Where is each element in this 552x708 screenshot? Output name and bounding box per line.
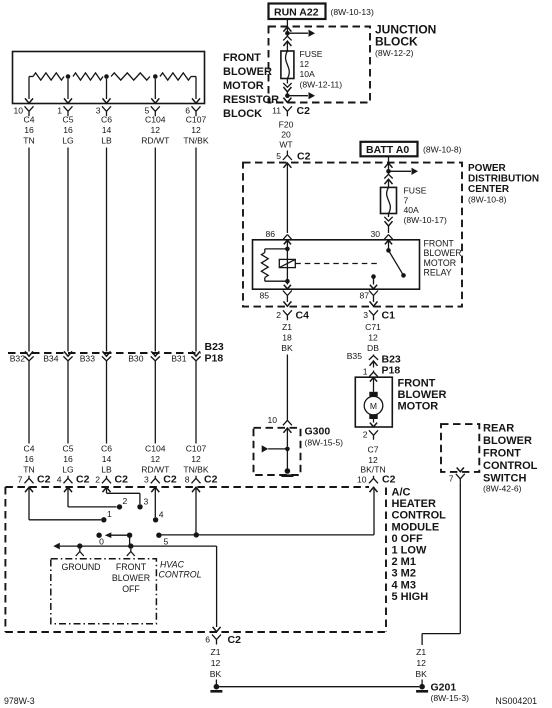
svg-text:BK: BK	[415, 669, 427, 679]
svg-text:86: 86	[265, 229, 275, 239]
svg-text:M: M	[370, 401, 377, 411]
svg-text:4: 4	[57, 475, 62, 485]
wire pin2 to switch contact 3	[107, 487, 140, 504]
relay pin 87	[359, 291, 378, 301]
arrow at G300 top edge	[283, 428, 291, 447]
svg-text:B23: B23	[205, 341, 224, 353]
svg-text:MOTOR: MOTOR	[223, 80, 264, 92]
svg-text:Z1: Z1	[210, 647, 220, 657]
node G300 junction dot	[285, 447, 290, 452]
svg-text:12: 12	[300, 59, 310, 69]
sheet code NS004201	[495, 696, 537, 706]
svg-text:RESISTOR: RESISTOR	[223, 94, 279, 106]
svg-text:FRONT: FRONT	[116, 562, 147, 572]
svg-text:(8W-10-8): (8W-10-8)	[468, 195, 507, 205]
relay pin 85	[259, 291, 291, 301]
svg-text:C2: C2	[297, 151, 311, 163]
svg-text:LB: LB	[101, 465, 112, 475]
relay coil wire from pin 86	[286, 240, 288, 281]
svg-text:C104: C104	[145, 115, 166, 125]
svg-text:7: 7	[449, 474, 454, 484]
svg-text:1: 1	[363, 367, 368, 377]
svg-text:16: 16	[24, 454, 34, 464]
svg-text:BATT A0: BATT A0	[366, 144, 409, 156]
svg-text:12: 12	[211, 658, 221, 668]
svg-text:10: 10	[267, 415, 277, 425]
label FRONT BLOWER MOTOR	[398, 378, 447, 413]
svg-text:(8W-15-5): (8W-15-5)	[305, 438, 344, 448]
svg-text:GROUND: GROUND	[61, 562, 100, 572]
svg-text:C4: C4	[24, 115, 35, 125]
svg-text:C7: C7	[368, 445, 379, 455]
svg-text:FUSE: FUSE	[404, 186, 427, 196]
svg-text:1: 1	[107, 509, 112, 519]
label B23 P18 connector names (left)	[205, 341, 224, 365]
label (8W-10-8) batt	[423, 145, 462, 155]
svg-text:16: 16	[63, 454, 73, 464]
label G300 (8W-15-5)	[305, 426, 344, 448]
svg-text:OFF: OFF	[122, 584, 140, 594]
fuse F12 10A junction block	[281, 51, 294, 79]
svg-text:C2: C2	[163, 474, 177, 486]
ignition feed RUN A22 box	[269, 4, 326, 20]
svg-text:C2: C2	[382, 474, 396, 486]
wire internal ground bus	[60, 546, 217, 627]
svg-text:LG: LG	[62, 136, 74, 146]
svg-text:DB: DB	[367, 343, 379, 353]
wire to junction block bottom edge with arrow	[283, 96, 291, 103]
svg-text:5 HIGH: 5 HIGH	[392, 591, 429, 603]
svg-text:WT: WT	[279, 140, 293, 150]
arrows onto relay box bottom edge	[284, 281, 377, 289]
wire module pin6 to ground G201	[215, 680, 217, 685]
svg-text:NS004201: NS004201	[495, 696, 537, 706]
svg-text:Z1: Z1	[416, 647, 426, 657]
svg-text:(8W-12-11): (8W-12-11)	[300, 80, 343, 90]
svg-text:8: 8	[185, 475, 190, 485]
svg-text:2: 2	[123, 496, 128, 506]
label FUSE 12 10A (8W-12-11)	[300, 49, 343, 90]
wire labels C4/C5/C6/C104/C107 circuits (lower)	[23, 444, 209, 475]
svg-text:C2: C2	[228, 634, 242, 646]
svg-text:C1: C1	[382, 310, 396, 322]
svg-text:B31: B31	[171, 353, 187, 363]
node wiper pivot	[127, 533, 132, 547]
svg-text:CENTER: CENTER	[468, 184, 510, 195]
svg-text:POWER: POWER	[468, 163, 507, 174]
svg-text:BLOCK: BLOCK	[375, 35, 418, 49]
label FRONT BLOWER MOTOR RELAY	[424, 239, 462, 278]
svg-text:C4: C4	[24, 444, 35, 454]
svg-text:CONTROL: CONTROL	[483, 460, 538, 472]
label B23 P18 connector names (right)	[382, 354, 401, 377]
ground symbol G300	[281, 449, 293, 477]
label HVAC CONTROL	[159, 559, 202, 579]
wire PDC top to relay pin 86	[286, 163, 288, 233]
wire BATT A0 into PDC	[388, 156, 390, 162]
svg-text:18: 18	[282, 333, 292, 343]
arrow at PDC top edge (coil feed)	[283, 163, 291, 168]
ground stub fork	[76, 549, 84, 556]
A/C heater control module dashed box	[5, 487, 386, 632]
svg-text:14: 14	[102, 454, 112, 464]
svg-text:FUSE: FUSE	[300, 49, 323, 59]
svg-text:6: 6	[205, 635, 210, 645]
wire label Z1 12 BK (left)	[210, 647, 222, 679]
svg-text:B33: B33	[80, 353, 96, 363]
svg-text:2: 2	[276, 310, 281, 320]
svg-text:7: 7	[404, 196, 409, 206]
wire pin7 to switch contact 1	[29, 487, 101, 520]
svg-text:4 M3: 4 M3	[392, 579, 416, 591]
svg-text:C5: C5	[63, 444, 74, 454]
node junction pin8 on motor return	[194, 532, 199, 537]
svg-text:(8W-42-6): (8W-42-6)	[483, 484, 522, 494]
svg-text:10: 10	[13, 106, 23, 116]
arrows onto resistor block bottom edge	[25, 98, 200, 103]
label GROUND	[61, 562, 100, 572]
svg-text:C2: C2	[204, 474, 218, 486]
resistor element R1d	[160, 73, 191, 80]
wire resistor chain stubs and tap drops	[29, 77, 196, 100]
svg-text:4: 4	[159, 510, 164, 520]
wire label C7 12 BK/TN	[360, 445, 385, 475]
label G201 (8W-15-3)	[431, 682, 470, 704]
motor armature circle M	[364, 396, 383, 415]
wire motor to box bottom with arrow	[370, 419, 377, 427]
svg-text:DISTRIBUTION: DISTRIBUTION	[468, 174, 539, 185]
switch wiper arm (at OFF)	[105, 532, 130, 538]
rear blower front control switch dashed box	[441, 424, 479, 472]
arrow at module bottom edge pin 6	[213, 627, 221, 632]
svg-text:REAR: REAR	[483, 423, 514, 435]
svg-text:C2: C2	[37, 474, 51, 486]
wire rear switch to ground G201	[422, 483, 460, 645]
svg-text:CONTROL: CONTROL	[392, 510, 447, 522]
relay switch blade (open)	[389, 250, 406, 277]
node ground stub	[77, 543, 82, 548]
label FRONT BLOWER OFF	[112, 562, 150, 594]
connector pair below fuse 7	[384, 214, 392, 234]
label REAR BLOWER FRONT CONTROL SWITCH (8W-42-6)	[483, 423, 538, 494]
svg-text:20: 20	[281, 130, 291, 140]
svg-text:3: 3	[144, 475, 149, 485]
wire RUN A22 to junction block	[286, 19, 288, 27]
svg-text:BLOWER: BLOWER	[424, 248, 462, 258]
labels B32 B34 B33 B30 B31	[10, 353, 187, 363]
svg-text:(8W-12-2): (8W-12-2)	[375, 48, 414, 58]
label POWER DISTRIBUTION CENTER (8W-10-8)	[468, 163, 539, 205]
node switch contact 2	[117, 496, 128, 510]
svg-text:(8W-15-3): (8W-15-3)	[431, 693, 470, 703]
svg-text:C6: C6	[101, 444, 112, 454]
label FRONT BLOWER MOTOR RESISTOR BLOCK	[223, 52, 279, 120]
svg-text:C2: C2	[115, 474, 129, 486]
svg-text:MOTOR: MOTOR	[398, 401, 439, 413]
branch arrow to other circuits (batt)	[391, 168, 419, 175]
wire label Z1 18 BK	[281, 322, 293, 353]
svg-text:(8W-10-13): (8W-10-13)	[331, 7, 374, 17]
svg-text:C5: C5	[63, 115, 74, 125]
motor pin 2	[363, 430, 378, 440]
svg-text:BLOWER: BLOWER	[483, 435, 532, 447]
svg-text:5: 5	[164, 537, 169, 547]
svg-text:BLOWER: BLOWER	[398, 389, 447, 401]
arrow at junction block top edge	[283, 27, 291, 32]
svg-text:G201: G201	[431, 682, 457, 694]
A/C module pin 10 with C2	[357, 474, 396, 486]
svg-text:12: 12	[151, 125, 161, 135]
node switch contact 4	[153, 510, 164, 523]
svg-text:3: 3	[144, 497, 149, 507]
svg-text:Z1: Z1	[282, 322, 292, 332]
label (8W-10-13)	[331, 7, 374, 17]
connector pair inside junction block (upper)	[283, 35, 291, 51]
connector pair above fuse 7	[384, 173, 392, 188]
svg-text:C104: C104	[145, 444, 166, 454]
svg-text:RUN A22: RUN A22	[274, 7, 319, 19]
wire Z1 to ground G300	[286, 355, 288, 415]
svg-text:TN/BK: TN/BK	[183, 136, 209, 146]
motor brush terminal (bottom)	[369, 414, 377, 419]
A/C module connector pins 7 4 2 3 8 with C2	[18, 474, 218, 486]
ground symbol G201 (left)	[210, 684, 222, 693]
ground G300 dashed box	[254, 428, 301, 475]
svg-text:P18: P18	[382, 365, 401, 377]
module pin 6 connector C2	[205, 634, 241, 646]
svg-text:12: 12	[368, 455, 378, 465]
motor M1 FRONT BLOWER MOTOR box	[355, 377, 392, 427]
svg-text:CONTROL: CONTROL	[159, 569, 202, 579]
svg-text:B30: B30	[128, 353, 144, 363]
arrows at module top edge pins	[25, 487, 378, 492]
svg-text:RD/WT: RD/WT	[141, 136, 170, 146]
arrow at rear switch bottom edge	[457, 468, 464, 472]
wire labels C4/C5/C6/C104/C107 circuits	[23, 115, 209, 146]
svg-text:3 M2: 3 M2	[392, 568, 416, 580]
svg-text:1 LOW: 1 LOW	[392, 545, 427, 557]
rear switch pin 7	[449, 474, 465, 484]
svg-text:C107: C107	[186, 444, 207, 454]
ground bus entry arrow	[53, 543, 60, 550]
svg-text:A/C: A/C	[392, 487, 411, 499]
PDC pin 5 connector C2	[276, 151, 310, 163]
svg-text:BLOWER: BLOWER	[223, 66, 272, 78]
svg-text:FRONT: FRONT	[424, 239, 455, 249]
svg-text:LG: LG	[62, 465, 74, 475]
wire label Z1 12 BK (right)	[415, 647, 427, 679]
relay switch common from pin 30	[386, 240, 391, 253]
HVAC control dash-dot box	[51, 559, 157, 624]
svg-text:BK/TN: BK/TN	[360, 465, 385, 475]
svg-text:B35: B35	[347, 351, 363, 361]
wire ground bus to G201	[219, 686, 419, 688]
svg-text:BLOCK: BLOCK	[223, 108, 262, 120]
svg-text:5: 5	[276, 151, 281, 161]
svg-text:2 M1: 2 M1	[392, 556, 416, 568]
connector pair inside junction block (lower)	[283, 79, 291, 94]
svg-text:B34: B34	[43, 353, 59, 363]
wire junction block to PDC	[286, 151, 288, 153]
svg-text:0 OFF: 0 OFF	[392, 533, 423, 545]
relay suppression resistor	[261, 249, 287, 281]
svg-text:40A: 40A	[404, 205, 420, 215]
relay coil element	[279, 259, 295, 267]
svg-text:C71: C71	[365, 322, 381, 332]
PDC pin 3 connector C1	[363, 310, 395, 322]
wire into G201 right	[421, 680, 423, 685]
front blower off stub fork	[127, 549, 135, 556]
svg-text:12: 12	[368, 333, 378, 343]
battery feed BATT A0 box	[361, 142, 418, 157]
junction block dashed box	[269, 27, 371, 103]
svg-text:C107: C107	[186, 115, 207, 125]
resistor element R1a	[33, 73, 64, 80]
sheet number 978W-3	[4, 696, 35, 706]
wire pin8 to motor return line	[195, 487, 197, 535]
node switch contact 0	[96, 533, 104, 547]
node switch contact 1	[101, 509, 112, 523]
in-line connector B35	[347, 351, 378, 368]
svg-text:MODULE: MODULE	[392, 521, 440, 533]
svg-text:16: 16	[63, 125, 73, 135]
svg-text:TN: TN	[23, 465, 34, 475]
svg-text:MOTOR: MOTOR	[424, 258, 457, 268]
branch arrow to other circuits (bottom)	[289, 92, 315, 99]
in-line connectors B32 B34 B33 B30 B31	[24, 351, 200, 360]
node switch contact 5	[156, 533, 168, 547]
arrow at PDC top edge (batt feed)	[385, 163, 393, 169]
svg-text:LB: LB	[101, 136, 112, 146]
svg-text:FRONT: FRONT	[223, 52, 261, 64]
svg-text:2: 2	[95, 475, 100, 485]
motor pin 1	[363, 367, 378, 377]
svg-text:10A: 10A	[300, 69, 316, 79]
svg-text:3: 3	[363, 310, 368, 320]
svg-text:11: 11	[272, 106, 281, 116]
node switch contact 3	[137, 497, 148, 510]
node relay coil bottom junction	[285, 279, 290, 284]
svg-text:BLOWER: BLOWER	[112, 573, 150, 583]
wire C71 relay to motor	[373, 354, 375, 357]
svg-text:1: 1	[57, 106, 62, 116]
svg-text:B32: B32	[10, 353, 26, 363]
svg-text:14: 14	[102, 125, 112, 135]
svg-text:12: 12	[151, 454, 161, 464]
node junction dot batt feed	[386, 169, 391, 174]
branch arrow from other ground circuits	[262, 445, 288, 452]
svg-text:P18: P18	[205, 353, 224, 365]
svg-text:C2: C2	[297, 105, 311, 117]
svg-text:87: 87	[359, 291, 369, 301]
svg-text:12: 12	[191, 125, 201, 135]
resistor element R1c	[111, 73, 150, 80]
svg-text:7: 7	[18, 475, 23, 485]
relay actuation dashed link	[295, 263, 377, 265]
branch arrow to other circuits (top)	[289, 30, 315, 37]
svg-text:C4: C4	[296, 310, 310, 322]
wire runs from B-row to A/C heater control module	[29, 361, 196, 444]
resistor element R1b	[73, 73, 103, 80]
svg-text:10: 10	[357, 475, 367, 485]
svg-text:TN: TN	[23, 136, 34, 146]
svg-text:BK: BK	[210, 669, 222, 679]
svg-text:3: 3	[96, 106, 101, 116]
svg-text:978W-3: 978W-3	[4, 696, 35, 706]
svg-text:2: 2	[363, 430, 368, 440]
node junction dot above fuse output	[285, 93, 290, 98]
svg-text:(8W-10-17): (8W-10-17)	[404, 215, 447, 225]
relay K1 FRONT BLOWER MOTOR RELAY box	[253, 240, 420, 289]
relay pin 86	[265, 229, 291, 244]
svg-text:85: 85	[259, 291, 269, 301]
PDC pin 2 connector C4	[276, 310, 309, 322]
svg-text:C6: C6	[101, 115, 112, 125]
node junction dots on resistor chain	[66, 74, 158, 79]
wire motor return line contact5 to pin10	[159, 487, 374, 535]
label A/C HEATER CONTROL MODULE modes	[392, 487, 447, 603]
svg-text:0: 0	[99, 537, 104, 547]
svg-text:HEATER: HEATER	[392, 498, 436, 510]
svg-text:12: 12	[191, 454, 201, 464]
label FUSE 7 40A (8W-10-17)	[404, 186, 447, 226]
relay output contact to pin 87	[371, 274, 376, 284]
wires to PDC bottom edge	[283, 300, 377, 307]
svg-text:30: 30	[370, 229, 380, 239]
svg-text:F20: F20	[279, 120, 294, 130]
resistor block connector pins 10 1 3 5 6	[13, 106, 200, 117]
wire label F20 20 WT	[279, 120, 294, 150]
wire pin3 to switch contact 4	[154, 487, 156, 517]
label JUNCTION BLOCK (8W-12-2)	[375, 23, 436, 59]
svg-text:FRONT: FRONT	[483, 448, 521, 460]
svg-text:16: 16	[24, 125, 34, 135]
ground symbol G201 (right)	[416, 684, 428, 693]
node relay coil top junction	[285, 247, 290, 252]
dashed in-line connector row	[8, 352, 201, 354]
node front blower off stub	[128, 543, 133, 548]
power distribution center dashed box	[243, 163, 462, 307]
fuse F7 40A PDC	[381, 187, 397, 213]
motor brush terminal (top)	[369, 392, 377, 397]
svg-text:FRONT: FRONT	[398, 378, 436, 390]
wire label C71 12 DB	[365, 322, 381, 353]
resistor block R1 FRONT BLOWER MOTOR RESISTOR BLOCK box	[13, 52, 205, 104]
node junction dot below RUN feed	[285, 31, 290, 36]
junction block pin 11 connector C2	[272, 105, 310, 117]
svg-text:12: 12	[416, 658, 426, 668]
wire pin4 to switch contact 2	[68, 487, 117, 507]
svg-text:(8W-10-8): (8W-10-8)	[423, 145, 462, 155]
svg-text:BK: BK	[281, 343, 293, 353]
G300 pin 10	[267, 414, 291, 425]
arrow at motor box top edge	[370, 377, 377, 391]
svg-text:HVAC: HVAC	[160, 559, 185, 569]
svg-text:G300: G300	[305, 426, 331, 438]
svg-text:RELAY: RELAY	[424, 268, 452, 278]
relay pin 30	[370, 229, 392, 244]
svg-text:C2: C2	[76, 474, 90, 486]
wire runs from resistor block to B-row connectors	[29, 148, 196, 352]
